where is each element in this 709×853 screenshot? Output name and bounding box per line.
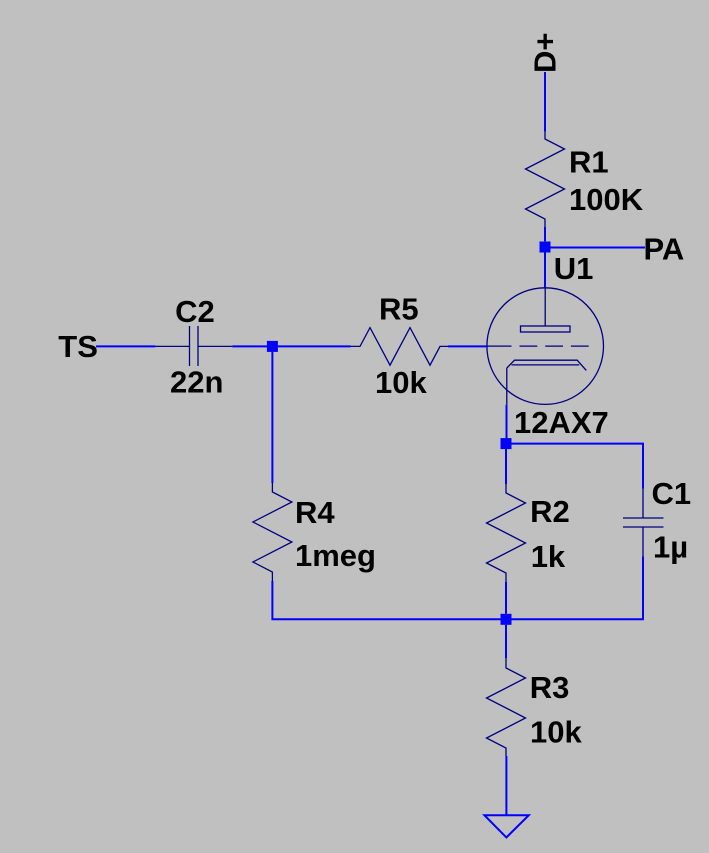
wire (cathode lead)	[506, 405, 508, 439]
svg-text:100K: 100K	[569, 182, 644, 217]
wire	[232, 345, 267, 347]
wire to PA	[551, 247, 646, 249]
node junction (cathode node)	[501, 438, 512, 449]
resistor R1	[526, 132, 565, 227]
svg-text:U1: U1	[554, 251, 594, 286]
svg-text:12AX7: 12AX7	[514, 405, 609, 440]
svg-text:1meg: 1meg	[295, 538, 376, 573]
capacitor C2	[155, 326, 232, 366]
svg-text:1k: 1k	[531, 539, 566, 574]
svg-text:22n: 22n	[170, 365, 223, 400]
wire (R2 top)	[505, 449, 507, 484]
wire	[448, 345, 487, 347]
node junction (lower rail node)	[501, 614, 512, 625]
wire (R2 bottom)	[505, 582, 507, 614]
wire	[544, 252, 546, 289]
resistor R5	[351, 328, 449, 366]
svg-text:R4: R4	[295, 495, 335, 530]
resistor R2	[487, 484, 526, 582]
wire	[544, 227, 546, 241]
svg-text:PA: PA	[644, 232, 685, 267]
svg-text:10k: 10k	[375, 365, 427, 400]
svg-text:R1: R1	[569, 145, 609, 180]
op-amp U1 (triode tube 12AX7)	[487, 288, 604, 405]
svg-text:R5: R5	[379, 292, 419, 327]
svg-text:C2: C2	[175, 294, 215, 329]
wire	[278, 345, 351, 347]
svg-text:1µ: 1µ	[653, 530, 688, 565]
wire (R3 to ground)	[505, 756, 507, 815]
wire (cathode node to C1 branch)	[512, 444, 644, 489]
svg-text:R3: R3	[530, 670, 570, 705]
resistor R3	[487, 658, 526, 756]
ground	[484, 815, 528, 837]
svg-text:R2: R2	[530, 494, 570, 529]
svg-text:D+: D+	[528, 33, 563, 74]
svg-text:TS: TS	[58, 329, 98, 364]
node junction (plate node)	[540, 242, 551, 253]
wire (C1 bottom to lower rail)	[512, 557, 644, 620]
resistor R4	[253, 483, 292, 581]
svg-text:C1: C1	[652, 476, 692, 511]
wire	[544, 72, 546, 132]
capacitor C1	[623, 489, 664, 557]
wire (grid node down to R4)	[271, 352, 273, 483]
wire (R4 bottom to lower rail)	[272, 581, 501, 619]
svg-text:10k: 10k	[530, 715, 582, 750]
wire (node down to R3)	[505, 625, 507, 658]
node junction (grid node)	[267, 341, 278, 352]
wire	[96, 345, 155, 347]
